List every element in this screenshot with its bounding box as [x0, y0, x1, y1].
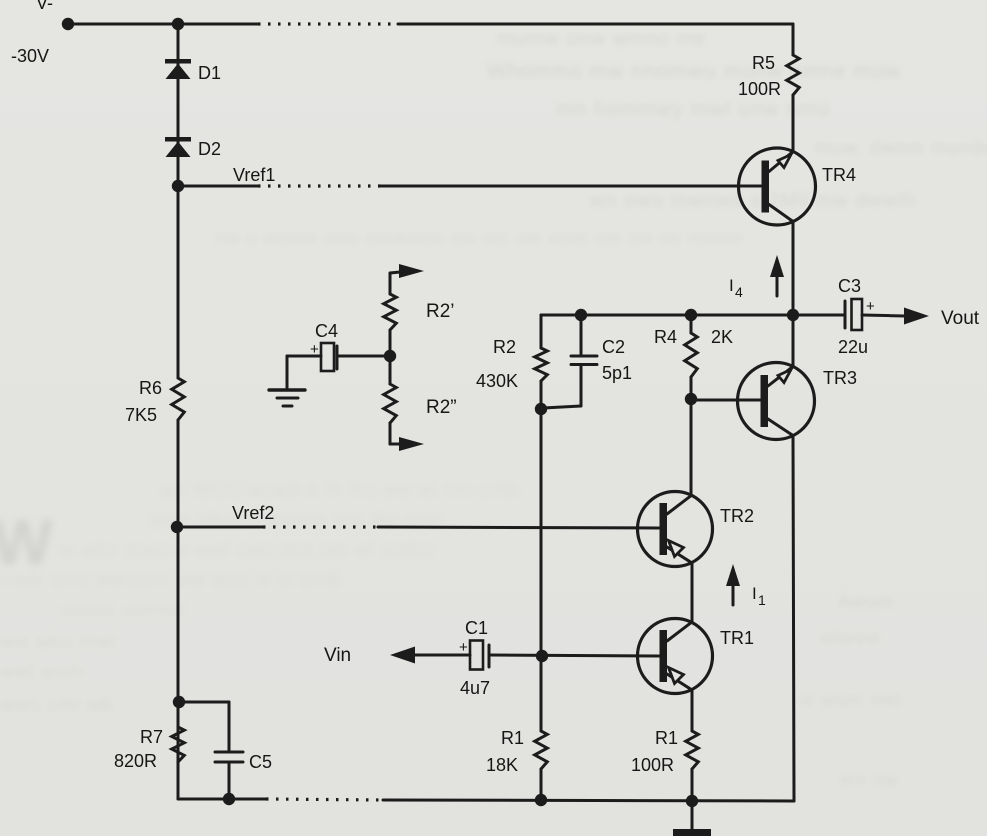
svg-text:C4: C4: [315, 321, 338, 341]
svg-text:Vin: Vin: [324, 645, 351, 666]
wire bottom rail solid right: [383, 800, 794, 801]
capacitor C2: [543, 315, 632, 408]
capacitor C1: [459, 618, 490, 698]
transistor TR2: [638, 492, 755, 567]
junction output node: [787, 309, 799, 321]
svg-text:820R: 820R: [114, 751, 157, 771]
svg-text:2K: 2K: [711, 327, 733, 347]
svg-text:R6: R6: [139, 378, 162, 398]
capacitor C5: [215, 752, 272, 772]
wire Vref1 solid left: [178, 185, 258, 188]
wire Vref1 solid right to TR4 base: [380, 185, 761, 188]
wire TR1 emitter down: [691, 690, 694, 731]
diode D2: [165, 137, 221, 159]
wire R2 top to output node: [541, 314, 793, 317]
wire R7 top to C5 top: [179, 702, 229, 751]
junction R4 / TR3 base: [685, 393, 697, 405]
node V- supply terminal: [11, 0, 74, 66]
svg-text:C5: C5: [249, 752, 272, 772]
svg-text:TR3: TR3: [823, 368, 857, 388]
svg-text:Vref1: Vref1: [233, 165, 275, 185]
wire TR3 emitter down right rail: [793, 436, 794, 801]
svg-text:D2: D2: [198, 139, 221, 159]
svg-text:R5: R5: [752, 53, 775, 73]
current arrow I4: [729, 255, 784, 300]
svg-text:I: I: [752, 584, 757, 603]
svg-text:4u7: 4u7: [460, 678, 490, 698]
resistor R2: [476, 337, 547, 391]
resistor R7: [114, 727, 184, 771]
svg-text:R2”: R2”: [426, 397, 457, 418]
svg-text:+: +: [459, 639, 468, 656]
resistor R2'': [384, 384, 457, 423]
resistor R1 18K: [486, 728, 547, 775]
svg-text:4: 4: [735, 284, 743, 300]
svg-text:22u: 22u: [838, 337, 868, 357]
svg-text:R1: R1: [501, 728, 524, 748]
wire bottom rail dotted: [266, 799, 383, 800]
wire top bus corner down to R2: [540, 315, 543, 348]
wire TR2 emitter to TR1 collector: [691, 563, 694, 622]
wire Vref2 solid right to TR2 base: [378, 527, 659, 528]
wire top rail dotted: [258, 22, 398, 25]
svg-text:Vout: Vout: [941, 308, 980, 329]
wire top rail solid left: [68, 23, 258, 26]
wire R1 18K bottom lead: [540, 769, 543, 800]
svg-text:R4: R4: [654, 327, 677, 347]
node Vref1: [172, 165, 276, 192]
junction top rail / left rail: [172, 18, 184, 30]
transistor TR1: [638, 619, 755, 694]
svg-text:TR4: TR4: [822, 165, 856, 185]
node Vref2: [171, 503, 275, 533]
junction C2 top: [575, 309, 587, 321]
svg-text:7K5: 7K5: [125, 405, 157, 425]
ground C4: [269, 390, 305, 406]
wire TR3 base: [691, 399, 760, 402]
resistor R4: [654, 327, 733, 377]
svg-text:V-: V-: [36, 0, 53, 13]
svg-text:I: I: [729, 276, 734, 295]
junction Vin node: [536, 650, 548, 662]
junction bottom rail / R1 18K: [535, 794, 547, 806]
svg-text:100R: 100R: [631, 755, 674, 775]
svg-text:C2: C2: [602, 337, 625, 357]
arrow Vin: [324, 645, 415, 666]
svg-text:1: 1: [758, 592, 766, 608]
svg-text:TR2: TR2: [720, 506, 754, 526]
wire C5 bottom lead: [228, 763, 231, 798]
capacitor C4: [310, 321, 390, 371]
wire left rail lower: [177, 420, 180, 799]
wire R4 junction down to TR2: [690, 399, 693, 495]
resistor R6: [125, 378, 184, 425]
svg-text:R1: R1: [655, 728, 678, 748]
wire left rail upper: [177, 24, 180, 378]
wire R2' to junction: [389, 330, 392, 356]
wire top rail solid right: [398, 23, 793, 26]
svg-text:18K: 18K: [486, 755, 518, 775]
junction bottom rail / C5: [223, 793, 235, 805]
wire R5 to TR4: [792, 95, 795, 152]
svg-text:5p1: 5p1: [602, 363, 632, 383]
wire TR4 emitter down: [792, 221, 795, 366]
transistor TR4: [739, 148, 857, 225]
junction R2' / R2'' / C4: [384, 350, 396, 362]
wire R2 bottom to junction: [540, 381, 543, 409]
svg-text:R2: R2: [493, 337, 516, 357]
wire C1 to TR1 base: [490, 655, 660, 656]
current arrow I1: [726, 564, 766, 608]
resistor R1 100R: [631, 728, 698, 775]
wire bottom rail solid left: [178, 798, 266, 801]
wire C4 to ground: [287, 356, 321, 389]
resistor R2': [384, 294, 455, 330]
junction R7 top: [173, 696, 185, 708]
svg-text:C3: C3: [838, 276, 861, 296]
svg-text:Vref2: Vref2: [232, 503, 274, 523]
capacitor C3: [838, 276, 875, 357]
ground bottom terminal: [673, 801, 711, 836]
svg-text:430K: 430K: [476, 371, 518, 391]
arrow R2'' wiper bottom: [390, 423, 424, 451]
wire junction to R2'': [389, 356, 392, 384]
svg-text:+: +: [866, 298, 875, 315]
svg-text:C1: C1: [465, 618, 488, 638]
transistor TR3: [738, 363, 858, 440]
wire R1 100R bottom lead: [691, 769, 694, 801]
svg-text:TR1: TR1: [720, 628, 754, 648]
svg-text:100R: 100R: [738, 79, 781, 99]
resistor R5: [738, 53, 799, 99]
wire top bus to R4: [690, 315, 693, 333]
wire output node to C3: [793, 314, 844, 317]
wire Vref2 solid left: [177, 526, 263, 529]
svg-text:-30V: -30V: [11, 46, 49, 66]
wire C3 to Vout arrow: [862, 315, 905, 316]
wire Vref1 dotted: [258, 184, 380, 187]
arrow Vout: [904, 308, 980, 330]
svg-text:R2’: R2’: [426, 301, 455, 322]
arrow R2' wiper top: [390, 264, 424, 294]
diode D1: [165, 59, 221, 83]
wire Vin arrow to C1: [415, 654, 470, 657]
junction bottom rail / R1 100R: [686, 795, 698, 807]
wire Vref2 dotted: [263, 525, 378, 528]
wire x541 rail middle: [540, 409, 543, 731]
wire R4 bottom to junction: [690, 377, 693, 399]
junction R2 / C2 bottom: [535, 403, 547, 415]
svg-text:D1: D1: [198, 63, 221, 83]
junction R4 top: [685, 309, 697, 321]
svg-text:R7: R7: [140, 727, 163, 747]
wire right rail top: [792, 24, 795, 55]
